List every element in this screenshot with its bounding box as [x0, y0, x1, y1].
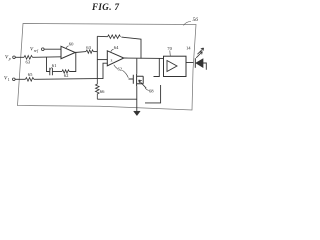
wire feedback down to output	[121, 37, 141, 59]
svg-text:70: 70	[167, 46, 172, 51]
wire op-amp 60 output	[75, 51, 86, 54]
wire op-amp 64 output	[124, 57, 164, 59]
resistor 62 (feedback)	[62, 70, 69, 73]
buffer 70	[164, 56, 187, 76]
wire source down to ground	[136, 86, 138, 111]
wire Vref to op-amp	[44, 48, 61, 50]
svg-text:p: p	[8, 57, 11, 61]
wire resistor to op-amp input	[33, 56, 62, 59]
leader for 56	[184, 22, 192, 26]
svg-text:62: 62	[64, 73, 69, 78]
resistor 63 (interstage)	[86, 50, 93, 53]
svg-text:68: 68	[149, 89, 154, 94]
svg-text:FIG. 7: FIG. 7	[91, 2, 120, 12]
wire V1 to resistor	[15, 78, 25, 80]
wire into op-amp 64 input	[97, 59, 107, 61]
wire feedback up to output	[69, 52, 76, 72]
svg-text:61: 61	[52, 63, 57, 68]
wire capacitor to resistor	[53, 71, 62, 73]
capacitor 61	[50, 68, 53, 75]
wire vertical node column	[96, 36, 98, 78]
svg-text:66: 66	[100, 89, 105, 94]
dashed enclosure box 56	[18, 24, 197, 111]
wire feedback tap down	[47, 57, 50, 71]
resistor 65	[25, 78, 33, 82]
wire Vp to resistor	[15, 56, 24, 58]
wire feedback top run	[97, 35, 107, 37]
wire drain drop	[136, 59, 138, 74]
resistor 66 (sense)	[96, 79, 100, 100]
svg-text:1: 1	[8, 78, 10, 82]
svg-text:65: 65	[28, 72, 33, 77]
wire buffer to laser diode	[186, 62, 193, 64]
svg-text:z: z	[111, 58, 113, 63]
laser diode 14	[194, 58, 196, 68]
wire output L drop	[154, 58, 160, 76]
svg-text:62: 62	[118, 67, 123, 72]
ground	[134, 111, 141, 115]
wire resistor to node	[93, 51, 97, 53]
svg-text:64: 64	[114, 45, 119, 50]
wire sense to source node	[97, 98, 137, 100]
transistor 68	[129, 74, 144, 86]
op-amp 64	[107, 51, 124, 66]
svg-text:56: 56	[193, 17, 199, 23]
wire lower input stub	[97, 63, 107, 78]
svg-text:14: 14	[186, 45, 191, 50]
svg-text:63: 63	[26, 60, 31, 65]
resistor (op-amp 64 feedback)	[108, 35, 121, 39]
svg-text:60: 60	[69, 42, 74, 47]
svg-text:63: 63	[86, 45, 91, 50]
svg-text:ref: ref	[34, 49, 39, 53]
op-amp 60	[61, 46, 75, 58]
wire V1 run to sense node	[34, 78, 97, 81]
resistor 63 (Vp input)	[24, 56, 33, 60]
wire return rail	[145, 85, 161, 103]
